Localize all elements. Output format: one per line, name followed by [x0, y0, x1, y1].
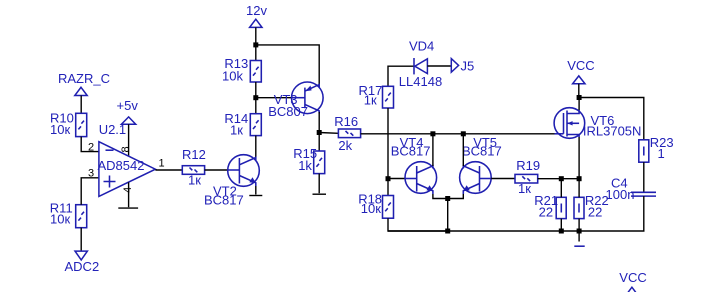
resistor R16: [334, 114, 360, 153]
svg-text:8: 8: [120, 146, 132, 152]
svg-text:1к: 1к: [230, 123, 243, 138]
svg-text:VCC: VCC: [567, 58, 594, 73]
node VT4 collector: [430, 131, 435, 136]
svg-text:10к: 10к: [50, 212, 70, 227]
resistor R11: [50, 201, 87, 228]
diode VD4 LL4148: [399, 39, 442, 90]
drain tap: [567, 110, 579, 114]
svg-text:22: 22: [539, 205, 553, 220]
node bottom rail emitters: [445, 229, 450, 234]
wire VD4 to J5: [427, 65, 451, 67]
VT4 emitter arrow: [426, 185, 433, 191]
wire emitters join: [433, 194, 463, 199]
svg-text:1k: 1k: [298, 158, 312, 173]
wire R14 to VT2 collector: [255, 136, 257, 159]
node R21 bottom rail: [559, 229, 564, 234]
svg-text:IRL3705N: IRL3705N: [583, 124, 642, 139]
wire R23 to C4: [643, 162, 645, 192]
wire op-amp pin 4: [128, 182, 130, 207]
wire R10 to op-amp pin 2: [81, 137, 99, 152]
wire VT5 base to R19: [491, 178, 515, 180]
wire op-amp output to R12: [155, 169, 182, 171]
wire R13 to node: [255, 82, 257, 98]
source tap: [567, 135, 579, 138]
svg-text:1: 1: [159, 158, 165, 170]
wire emitters to bottom rail: [447, 199, 449, 232]
port RAZR_C: [58, 71, 110, 96]
svg-text:2k: 2k: [338, 138, 352, 153]
port VCC bottom: [619, 270, 646, 292]
wire 12v down to R13: [255, 27, 257, 60]
wire node down to R15: [318, 134, 320, 151]
resistor R18: [358, 192, 393, 219]
resistor R13: [222, 56, 261, 84]
minus sign input: [106, 149, 114, 151]
svg-text:BC807: BC807: [268, 104, 308, 119]
wire VT5 collector to rail: [462, 134, 464, 166]
svg-text:J5: J5: [461, 58, 475, 73]
node VT5 collector: [461, 131, 466, 136]
svg-text:22: 22: [588, 205, 602, 220]
capacitor C4 100n: [606, 175, 657, 202]
wire R12 to VT2 base: [205, 169, 228, 171]
VT2 emitter arrow: [249, 177, 256, 183]
wire VT6 drain up to VCC node: [578, 98, 580, 111]
resistor R10: [50, 111, 87, 137]
wire +5v to op-amp pin 8: [128, 124, 130, 156]
svg-text:3: 3: [88, 167, 94, 179]
wire rail R16 to VT6 gate: [361, 133, 555, 135]
svg-text:10к: 10к: [361, 201, 381, 216]
gate bar: [563, 113, 565, 134]
svg-text:VD4: VD4: [409, 39, 434, 54]
svg-text:R12: R12: [182, 147, 206, 162]
node VCC top: [577, 95, 582, 100]
body connection with arrow: [567, 122, 579, 124]
node junction 12v branch: [253, 42, 258, 47]
svg-text:10к: 10к: [50, 122, 70, 137]
node R22 bottom / ground: [577, 229, 582, 234]
port J5: [451, 58, 474, 73]
ground AGND VT2: [249, 195, 262, 197]
wire VT6 source to R22: [578, 137, 580, 197]
node R22 top / VT6 source: [577, 176, 582, 181]
svg-text:RAZR_C: RAZR_C: [58, 71, 110, 86]
node R21 top: [559, 176, 564, 181]
transistor VT2 BC817: [204, 155, 259, 208]
resistor R21: [534, 193, 566, 220]
wire node to R14: [255, 98, 257, 114]
svg-text:1: 1: [658, 146, 665, 161]
resistor R12: [182, 147, 206, 188]
ground AGND op-amp: [118, 207, 138, 209]
port VCC top: [567, 58, 594, 84]
svg-text:AD8542: AD8542: [98, 158, 145, 173]
resistor R15: [293, 146, 324, 174]
resistor R22: [574, 193, 609, 220]
wire R18 to bottom rail: [388, 218, 448, 231]
port ADC2: [65, 251, 100, 274]
wire node to VT3 base: [256, 97, 292, 99]
wire VT4 collector to rail: [432, 134, 434, 166]
node R13/R14/VT3 base: [253, 95, 258, 100]
wire R19 to VT6 source node: [538, 178, 579, 180]
VT5 emitter arrow: [463, 185, 470, 191]
wire R17 top to VD4: [388, 66, 414, 86]
svg-text:12v: 12v: [246, 3, 267, 18]
svg-text:LL4148: LL4148: [399, 74, 442, 89]
svg-text:BC817: BC817: [204, 193, 244, 208]
svg-text:ADC2: ADC2: [65, 259, 100, 274]
svg-text:BC817: BC817: [391, 144, 431, 159]
wire RAZR_C to R10: [80, 96, 82, 114]
wire R11 to ADC2: [80, 228, 82, 251]
wire op-amp pin 3 to R11: [81, 178, 99, 205]
resistor R23: [639, 135, 674, 162]
node VT3 collector / rail / R15: [317, 130, 322, 135]
ground AGND R15: [313, 193, 327, 195]
wire VT4 base: [388, 178, 405, 180]
svg-text:2: 2: [88, 142, 94, 154]
wire C4 to bottom rail: [579, 196, 644, 231]
op-amp U2.1 AD8542: [88, 122, 165, 196]
wire R22 bottom to rail: [578, 219, 580, 231]
transistor VT5 BC817: [460, 135, 502, 194]
node emitters: [445, 196, 450, 201]
ground GND blue bar: [574, 245, 584, 247]
wire R15 to ground: [318, 174, 320, 194]
wire rail to R18: [387, 134, 389, 196]
transistor VT4 BC817: [391, 135, 437, 194]
svg-text:1к: 1к: [364, 93, 377, 108]
transistor VT3 BC807: [268, 82, 323, 119]
svg-text:VCC: VCC: [619, 270, 646, 285]
wire 12v branch to VT3 emitter: [256, 45, 319, 85]
resistor R17: [359, 83, 394, 108]
VT3 emitter arrow PNP: [305, 86, 311, 92]
svg-text:R19: R19: [516, 158, 540, 173]
svg-text:BC817: BC817: [462, 144, 502, 159]
gate lead: [555, 133, 564, 135]
resistor R14: [224, 111, 261, 138]
wire VT3 collector down to rail: [318, 112, 320, 134]
channel bar: [566, 111, 568, 137]
transistor VT6 IRL3705N MOSFET: [554, 108, 641, 139]
plus sign input: [104, 176, 116, 188]
svg-text:100n: 100n: [606, 187, 635, 202]
port +5v: [117, 98, 139, 124]
wire rail VT3 to R16: [319, 132, 338, 135]
resistor R19: [515, 158, 540, 196]
node R18 / VT4 base: [386, 176, 391, 181]
wire R21 leads: [560, 179, 562, 198]
svg-text:+5v: +5v: [117, 98, 139, 113]
wire VCC node to R23: [579, 98, 644, 140]
svg-text:R16: R16: [334, 114, 358, 129]
wire R17 bottom to rail: [387, 108, 389, 134]
wire VCC to node: [578, 84, 580, 98]
wire ground stub: [578, 231, 580, 242]
wire bottom rail: [388, 230, 579, 232]
svg-text:10k: 10k: [222, 69, 243, 84]
wire VT2 emitter to ground: [255, 186, 257, 195]
svg-text:U2.1: U2.1: [99, 122, 126, 137]
port 12v: [246, 3, 267, 27]
